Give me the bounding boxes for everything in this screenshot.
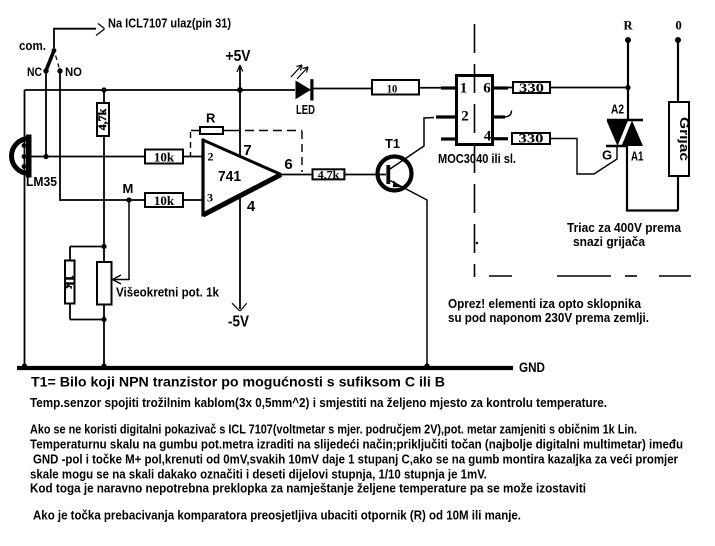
transistor T1 (378, 118, 435, 201)
svg-text:330: 330 (519, 80, 544, 95)
wire +5V bus left (25, 89, 296, 91)
svg-text:Grijač: Grijač (677, 117, 692, 161)
svg-text:Ako je točka prebacivanja komp: Ako je točka prebacivanja komparatora pr… (33, 509, 521, 523)
arrow wiper (113, 275, 122, 284)
power -5V arrow (232, 303, 247, 311)
pin lead 3 stub (441, 137, 455, 140)
svg-text:7: 7 (243, 142, 251, 159)
wire opamp out to 4,7k (281, 174, 313, 176)
svg-text:Kod toga je naravno nepotrebna: Kod toga je naravno nepotrebna preklopka… (30, 482, 586, 496)
wire 10 to MOC pin1 (419, 87, 444, 89)
pin lead 2 (436, 115, 455, 118)
svg-text:NO: NO (65, 65, 82, 79)
svg-text:4,7k: 4,7k (95, 108, 109, 130)
svg-text:T1= Bilo koji NPN tranzistor p: T1= Bilo koji NPN tranzistor po mogućnos… (31, 375, 445, 390)
svg-text:2: 2 (208, 150, 214, 164)
node +5V junction (237, 87, 243, 93)
svg-text:M: M (123, 181, 134, 196)
svg-text:T1: T1 (385, 136, 400, 151)
svg-text:741: 741 (218, 168, 241, 185)
svg-text:com.: com. (19, 38, 46, 53)
svg-text:Oprez! elementi iza opto sklop: Oprez! elementi iza opto sklopnika (448, 296, 642, 311)
node 4,7k top (101, 87, 106, 92)
svg-text:LED: LED (296, 102, 315, 117)
heater Grijac (669, 40, 689, 211)
resistor 10k lower (145, 193, 183, 207)
triac left triangle (607, 121, 629, 147)
power +5V arrow (237, 65, 243, 72)
wire 4,7k to base (345, 174, 387, 176)
potentiometer 1k (97, 247, 112, 320)
svg-text:MOC3040 ili sl.: MOC3040 ili sl. (438, 151, 516, 166)
switch S1 (43, 48, 62, 74)
pin lead 5 stub (494, 111, 512, 118)
resistor 4,7k vertical (97, 90, 109, 247)
wire emitter to gnd (426, 200, 428, 367)
svg-text:-5V: -5V (228, 314, 249, 331)
svg-text:A2: A2 (611, 102, 624, 117)
svg-text:Ako se ne koristi digitalni po: Ako se ne koristi digitalni pokazivač s … (30, 423, 637, 437)
svg-text:su pod naponom 230V prema zeml: su pod naponom 230V prema zemlji. (448, 310, 649, 325)
pin lead 1 (441, 86, 455, 89)
svg-text:10: 10 (387, 82, 398, 96)
wire NO line (60, 71, 145, 200)
wire NC line (45, 71, 47, 157)
dashed isolation horizontal (489, 275, 691, 277)
resistor 4,7k (313, 169, 345, 179)
wire wiper (113, 200, 129, 280)
node pot top (101, 244, 106, 249)
svg-text:+5V: +5V (226, 48, 251, 65)
svg-text:1: 1 (460, 81, 468, 97)
svg-text:A1: A1 (631, 149, 644, 164)
svg-text:LM35: LM35 (26, 174, 57, 189)
op-amp U1 741 (203, 139, 281, 217)
wire left rail (24, 90, 26, 366)
svg-text:Triac za 400V prema: Triac za 400V prema (567, 220, 682, 235)
node pot bottom (101, 317, 106, 322)
node mid junction (43, 154, 48, 159)
svg-text:10k: 10k (154, 150, 175, 165)
wire 330 to gate (550, 139, 617, 175)
pin lead 6 (494, 86, 508, 89)
node gnd left (22, 363, 27, 368)
svg-text:Temp.senzor spojiti trožilnim: Temp.senzor spojiti trožilnim kablom(3x … (30, 396, 607, 410)
svg-text:R: R (624, 19, 634, 33)
power rail +5V/-5V (239, 66, 241, 309)
resistor 1k (65, 247, 104, 320)
svg-text:Na ICL7107 ulaz(pin 31): Na ICL7107 ulaz(pin 31) (108, 16, 231, 31)
svg-text:Temperaturnu skalu na gumbu po: Temperaturnu skalu na gumbu pot.metra iz… (30, 438, 683, 452)
gnd bus (17, 366, 513, 370)
wire dashed R right (231, 130, 302, 132)
triac A2 bar (607, 119, 643, 122)
wire R to triac (627, 40, 629, 120)
svg-text:G: G (602, 148, 612, 163)
svg-text:snazi grijača: snazi grijača (573, 234, 646, 249)
wire dashed R down (301, 131, 303, 172)
LED D1 (296, 79, 314, 100)
node gnd pot (101, 363, 106, 368)
wire LM35 middle pin (25, 156, 146, 158)
wire 330 to R line (506, 87, 513, 89)
wire A1 down (627, 146, 678, 211)
resistor 10 (372, 80, 419, 95)
svg-text:GND -pol i točke M+ pol,krenut: GND -pol i točke M+ pol,krenuti od 0mV,s… (33, 453, 678, 467)
svg-text:330: 330 (519, 131, 544, 146)
svg-text:Višeokretni pot. 1k: Višeokretni pot. 1k (116, 285, 220, 300)
svg-text:6: 6 (284, 156, 292, 173)
svg-text:3: 3 (207, 191, 213, 205)
resistor R feedback (191, 127, 231, 134)
wire LED to 10 (314, 88, 373, 90)
node M (126, 197, 131, 202)
dashed isolation vertical (474, 24, 476, 277)
resistor 10k upper (145, 150, 183, 164)
svg-text:1k: 1k (62, 275, 77, 290)
svg-text:6: 6 (483, 81, 491, 97)
terminal R (625, 37, 631, 43)
svg-text:4: 4 (247, 198, 256, 215)
wire dashed R left (190, 132, 192, 156)
optocoupler MOC3040 (457, 76, 493, 145)
LED arrows (291, 65, 308, 79)
sensor LM35 (12, 135, 32, 178)
svg-text:4: 4 (484, 129, 492, 145)
triac A1 bar (606, 145, 628, 148)
wire 10k to pin3 (184, 199, 203, 201)
node gnd emitter (424, 363, 429, 368)
svg-text:4,7k: 4,7k (318, 167, 340, 181)
arrow to ICL7107 (96, 24, 105, 36)
resistor 330 upper (513, 82, 550, 93)
wire pot top branch (70, 246, 104, 248)
resistor 330 lower (512, 133, 550, 144)
node R line junction (625, 85, 630, 90)
dot isolation (476, 242, 478, 244)
svg-text:0: 0 (676, 19, 682, 33)
svg-text:R: R (206, 111, 216, 126)
svg-text:10k: 10k (154, 193, 175, 208)
svg-text:2: 2 (461, 109, 469, 125)
terminal 0 (675, 37, 681, 43)
svg-text:NC: NC (27, 65, 42, 79)
pin lead 4 (494, 137, 508, 140)
svg-text:skale mogu se na skali dakako: skale mogu se na skali dakako označiti i… (30, 468, 487, 482)
wire to ICL7107 (54, 29, 96, 48)
triac right triangle (622, 121, 644, 147)
svg-text:GND: GND (519, 359, 545, 375)
wire 10k to pin2 (184, 156, 203, 158)
wire pot to gnd (103, 320, 105, 367)
